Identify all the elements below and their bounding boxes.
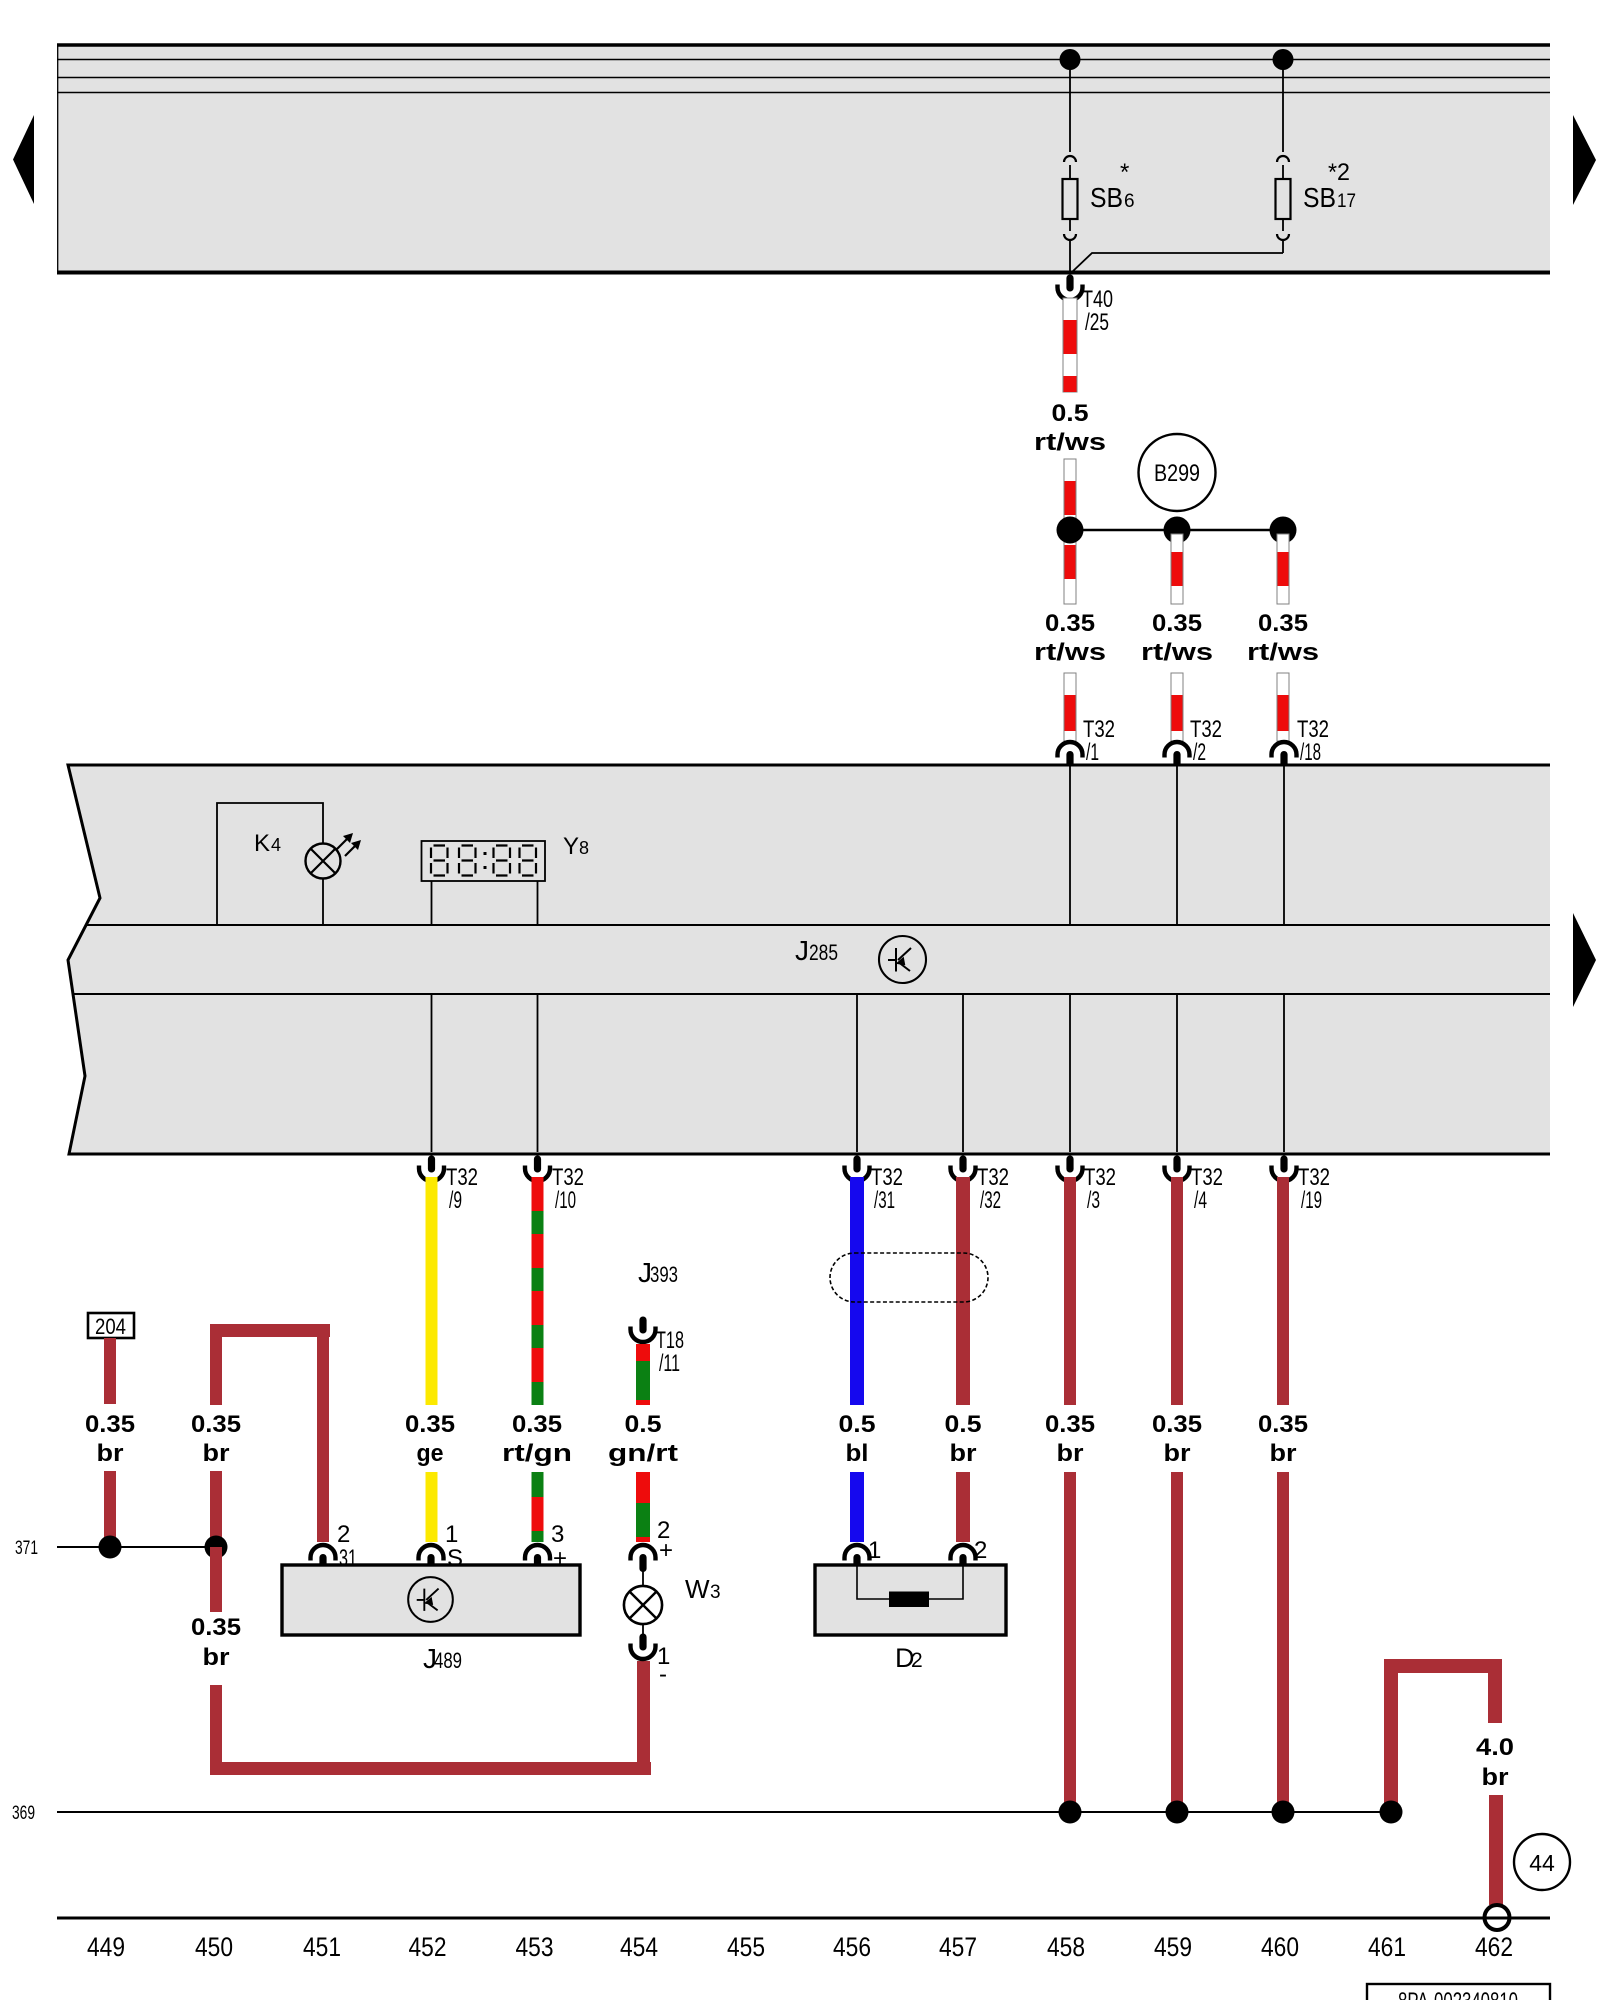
svg-text:/9: /9 — [449, 1187, 462, 1214]
svg-text:0.35: 0.35 — [1045, 610, 1095, 637]
svg-text:459: 459 — [1154, 1932, 1192, 1962]
svg-text:SB: SB — [1303, 182, 1336, 213]
wire 0.35 rt/ws (column 458 upper) — [1064, 459, 1076, 604]
wire 0.35 br col 458 long — [1064, 1472, 1076, 1812]
wire 0.35 ge upper (col 452) — [426, 1177, 438, 1405]
svg-text:369: 369 — [12, 1803, 35, 1824]
bottom frame line — [57, 1917, 1550, 1920]
svg-text:285: 285 — [809, 940, 838, 965]
dimmer control unit J489 box — [282, 1565, 580, 1674]
clock display Y8 — [422, 833, 590, 925]
svg-text:br: br — [950, 1440, 977, 1467]
wire 0.35 ge lower — [426, 1472, 438, 1542]
svg-text:371: 371 — [15, 1538, 38, 1559]
cluster internal wire to T32/3 — [1069, 994, 1071, 1152]
cluster internal wire to T32/9 — [431, 994, 433, 1152]
svg-text:44: 44 — [1529, 1850, 1555, 1876]
connector T32/19 — [1272, 1156, 1331, 1215]
labels 0.35 br (col 449) — [85, 1411, 135, 1467]
label J393 — [638, 1257, 678, 1288]
resistor unit D2 box — [815, 1565, 1006, 1673]
svg-text:2: 2 — [337, 1521, 350, 1548]
splice junction line — [1070, 529, 1283, 531]
wire 0.35 rt/gn upper (col 453) — [532, 1177, 544, 1405]
label 0.5 rt/ws — [1034, 400, 1106, 456]
svg-text:br: br — [1057, 1440, 1084, 1467]
wire 4.0 br to ground point — [1489, 1795, 1503, 1905]
svg-text:0.5: 0.5 — [625, 1411, 662, 1438]
labels 0.5 br (col 457) — [945, 1411, 982, 1467]
bus rail line — [57, 77, 1550, 79]
svg-text:gn/rt: gn/rt — [608, 1440, 678, 1467]
wire 0.35 br col 449 lower — [104, 1471, 116, 1547]
cluster internal wire to T32/31 — [856, 994, 858, 1152]
svg-text:2: 2 — [911, 1649, 923, 1672]
cluster internal wire to T32/10 — [537, 994, 539, 1152]
svg-text:454: 454 — [620, 1932, 658, 1962]
top power-rail box (gray band) — [57, 45, 1550, 273]
svg-text:1: 1 — [868, 1537, 881, 1564]
svg-text:460: 460 — [1261, 1932, 1299, 1962]
svg-text:/31: /31 — [874, 1187, 895, 1214]
wire 0.35 br col 450 top loop — [210, 1324, 330, 1542]
wire 0.5 br lower — [956, 1472, 970, 1542]
wire 0.5 rt/ws segment from T40/25 — [1063, 298, 1077, 392]
svg-text:br: br — [1270, 1440, 1297, 1467]
connector T32/4 — [1165, 1156, 1224, 1215]
svg-text:/3: /3 — [1087, 1187, 1100, 1214]
svg-text:0.5: 0.5 — [1052, 400, 1089, 427]
wire 0.5 bl upper (col 456) — [850, 1177, 864, 1405]
svg-text:204: 204 — [95, 1314, 126, 1339]
svg-text:0.5: 0.5 — [839, 1411, 876, 1438]
svg-text:bl: bl — [846, 1440, 869, 1467]
wire from rail to fuse SB6 — [1069, 60, 1071, 153]
svg-text:*2: *2 — [1328, 159, 1350, 186]
right page arrow (top) — [1573, 115, 1596, 205]
svg-text:rt/ws: rt/ws — [1034, 639, 1106, 666]
part number box — [1367, 1984, 1550, 2000]
svg-text:0.35: 0.35 — [1258, 1411, 1308, 1438]
svg-text:B299: B299 — [1154, 460, 1200, 487]
wire 0.35 rt/ws stub col 460 — [1277, 534, 1289, 604]
svg-text:rt/ws: rt/ws — [1141, 639, 1213, 666]
wire brown right leg up to W3 — [637, 1661, 650, 1768]
connector T32/2 — [1165, 716, 1223, 769]
wire 0.5 gn/rt upper (col 454) — [636, 1344, 650, 1405]
bus rail line 30 — [57, 59, 1550, 61]
splice dot 459 on 369 — [1166, 1801, 1189, 1824]
labels 4.0 br — [1476, 1734, 1514, 1791]
connector J489 pin 1/S — [419, 1521, 464, 1572]
labels 0.35 rt/ws x3 — [1034, 610, 1319, 666]
lamp W3 — [624, 1569, 721, 1636]
connector T32/3 — [1058, 1156, 1117, 1215]
right page arrow (middle) — [1573, 913, 1596, 1007]
svg-text:458: 458 — [1047, 1932, 1085, 1962]
svg-text:/1: /1 — [1086, 739, 1099, 766]
wire rt/ws lower col 459 — [1171, 673, 1183, 741]
svg-text:4: 4 — [271, 835, 281, 855]
svg-text:/2: /2 — [1193, 739, 1206, 766]
indicator lamp K4 symbol — [306, 833, 362, 879]
svg-text:br: br — [203, 1440, 230, 1467]
svg-text:6: 6 — [1124, 191, 1135, 212]
wire 0.35 br col 449 upper — [104, 1338, 116, 1404]
K4 lamp circuit inside cluster — [217, 803, 323, 925]
left page arrow — [13, 115, 34, 204]
connector J489 pin 2/31 — [311, 1521, 358, 1572]
B299 node circle label — [1139, 434, 1216, 511]
svg-text:+: + — [659, 1537, 673, 1564]
splice dot col 450 on 371 — [205, 1536, 228, 1559]
svg-text:8PA-002340810: 8PA-002340810 — [1398, 1988, 1518, 2000]
svg-text:J: J — [795, 935, 809, 966]
labels 0.35 br (col 459) — [1152, 1411, 1202, 1467]
svg-text:0.35: 0.35 — [1152, 610, 1202, 637]
wire 0.35 br col 450 bottom leg — [210, 1685, 222, 1775]
svg-text:/18: /18 — [1300, 739, 1321, 766]
splice dot 458 on 369 — [1059, 1801, 1082, 1824]
ground ring terminal — [1485, 1905, 1510, 1930]
node on rail for SB17 — [1273, 49, 1294, 70]
bus rail line — [57, 92, 1550, 94]
connector T40/25 — [1058, 275, 1114, 337]
cluster internal wire to T32/4 — [1176, 994, 1178, 1152]
wire 0.35 br upper (col 458) — [1064, 1177, 1076, 1405]
wire 0.35 br upper (col 459) — [1171, 1177, 1183, 1405]
wire 0.5 bl lower — [850, 1472, 864, 1542]
wire 0.35 rt/gn lower — [532, 1472, 544, 1542]
svg-text:/11: /11 — [659, 1350, 680, 1377]
wire 0.35 rt/ws stub col 459 — [1171, 534, 1183, 604]
wire 0.5 gn/rt lower — [636, 1472, 650, 1542]
labels 0.35 br (col 458) — [1045, 1411, 1095, 1467]
svg-text:0.35: 0.35 — [405, 1411, 455, 1438]
wire 4.0 br loop top — [1384, 1659, 1502, 1812]
svg-text:rt/gn: rt/gn — [502, 1440, 572, 1467]
svg-text:rt/ws: rt/ws — [1034, 429, 1106, 456]
wire 0.35 br col 450 below 371 — [210, 1547, 222, 1612]
svg-text:0.5: 0.5 — [945, 1411, 982, 1438]
svg-text:br: br — [203, 1644, 230, 1671]
connector T32/32 — [951, 1156, 1010, 1215]
svg-text:0.35: 0.35 — [512, 1411, 562, 1438]
connector T32/18 — [1272, 716, 1330, 769]
connector T32/9 — [419, 1156, 478, 1215]
wire 0.35 br upper (col 460) — [1277, 1177, 1289, 1405]
svg-text:461: 461 — [1368, 1932, 1406, 1962]
control unit label J285 — [795, 935, 838, 966]
labels 0.35 br (col 450) — [191, 1411, 241, 1467]
svg-text:W: W — [685, 1574, 710, 1604]
svg-text:/19: /19 — [1301, 1187, 1322, 1214]
svg-text:4.0: 4.0 — [1476, 1734, 1514, 1761]
svg-text:0.35: 0.35 — [191, 1411, 241, 1438]
splice dot 458 — [1057, 517, 1084, 544]
svg-text:17: 17 — [1337, 191, 1356, 212]
cluster internal wire to T32/2 — [1176, 766, 1178, 925]
J285 inner strip top line — [87, 924, 1550, 926]
labels 0.35 rt/gn (col 453) — [502, 1411, 572, 1467]
svg-text:/32: /32 — [980, 1187, 1001, 1214]
svg-text:br: br — [1164, 1440, 1191, 1467]
splice dot 460 — [1270, 517, 1297, 544]
svg-text:0.35: 0.35 — [85, 1411, 135, 1438]
svg-text:453: 453 — [516, 1932, 554, 1962]
svg-text:457: 457 — [939, 1932, 977, 1962]
svg-text:1: 1 — [445, 1521, 458, 1548]
svg-text:450: 450 — [195, 1932, 233, 1962]
gauge symbol in J489 — [408, 1577, 453, 1622]
wire 0.35 br col 459 long — [1171, 1472, 1183, 1812]
svg-text:br: br — [1482, 1764, 1509, 1791]
svg-text:/10: /10 — [555, 1187, 576, 1214]
connector T32/1 — [1058, 716, 1116, 769]
svg-text:449: 449 — [87, 1932, 125, 1962]
cluster internal wire to T32/1 — [1069, 766, 1071, 925]
connector T32/31 — [845, 1156, 904, 1215]
connector W3 pin 2/+ — [631, 1517, 674, 1572]
splice dot 460 on 369 — [1272, 1801, 1295, 1824]
svg-text:br: br — [97, 1440, 124, 1467]
svg-text:Y: Y — [563, 833, 579, 860]
splice dot 461 on 369 — [1380, 1801, 1403, 1824]
wire jog from SB17 to SB6 column — [1072, 253, 1283, 272]
wire from rail to fuse SB17 — [1282, 60, 1284, 153]
204 terminal box — [88, 1313, 134, 1339]
svg-text:3: 3 — [551, 1521, 564, 1548]
svg-text:K: K — [254, 830, 270, 857]
svg-text:SB: SB — [1090, 182, 1123, 213]
labels 0.5 gn/rt (col 454) — [608, 1411, 678, 1467]
cluster internal wire to T32/19 — [1283, 994, 1285, 1152]
splice dot col 449 on 371 — [99, 1536, 122, 1559]
svg-text:393: 393 — [650, 1262, 678, 1287]
svg-text:451: 451 — [303, 1932, 341, 1962]
svg-text:0.35: 0.35 — [191, 1614, 241, 1641]
connector W3 pin 1/- — [631, 1634, 671, 1689]
fuse SB17 — [1276, 156, 1357, 253]
ground run wire (brown horizontal) — [210, 1762, 651, 1775]
J285 inner strip bottom line — [73, 993, 1550, 995]
wire rt/ws lower col 458 — [1064, 673, 1076, 741]
wire 0.35 br col 460 long — [1277, 1472, 1289, 1812]
svg-text:/25: /25 — [1085, 309, 1109, 336]
svg-text:-: - — [659, 1661, 667, 1688]
line 371 — [15, 1538, 217, 1559]
svg-text:ge: ge — [417, 1440, 444, 1467]
labels 0.35 br (col 450 lower) — [191, 1614, 241, 1671]
svg-text:/4: /4 — [1194, 1187, 1207, 1214]
gauge symbol in J285 strip — [879, 936, 926, 983]
svg-text:0.35: 0.35 — [1258, 610, 1308, 637]
fuse SB6 — [1063, 156, 1135, 272]
wire rt/ws lower col 460 — [1277, 673, 1289, 741]
svg-text:455: 455 — [727, 1932, 765, 1962]
svg-text:456: 456 — [833, 1932, 871, 1962]
instrument cluster box J285 (gray band with torn left edge) — [68, 765, 1550, 1154]
svg-text:0.35: 0.35 — [1045, 1411, 1095, 1438]
labels 0.35 br (col 460) — [1258, 1411, 1308, 1467]
connector T32/10 — [525, 1156, 584, 1215]
labels 0.5 bl (col 456) — [839, 1411, 876, 1467]
twisted pair marker (dashed capsule) — [830, 1253, 988, 1302]
svg-text:*: * — [1120, 159, 1129, 186]
svg-text:452: 452 — [409, 1932, 447, 1962]
wire 0.35 br col 450 mid — [210, 1471, 222, 1612]
connector D2 pin 2 — [951, 1537, 988, 1572]
cluster internal wire to T32/32 — [962, 994, 964, 1152]
connector T18/11 — [631, 1317, 685, 1378]
svg-text:2: 2 — [974, 1537, 987, 1564]
splice dot 459 — [1164, 517, 1191, 544]
node on rail for SB6 — [1060, 49, 1081, 70]
labels 0.35 ge (col 452) — [405, 1411, 455, 1467]
connector J489 pin 3/+ — [525, 1521, 567, 1572]
cluster internal wire to T32/18 — [1283, 766, 1285, 925]
connector D2 pin 1 — [845, 1537, 882, 1572]
svg-text:rt/ws: rt/ws — [1247, 639, 1319, 666]
ground reference circle 44 — [1514, 1834, 1570, 1890]
svg-text:462: 462 — [1475, 1932, 1513, 1962]
svg-text:8: 8 — [579, 838, 589, 858]
svg-text:0.35: 0.35 — [1152, 1411, 1202, 1438]
svg-text:3: 3 — [710, 1582, 721, 1603]
svg-text:489: 489 — [434, 1648, 462, 1673]
wire 0.5 br upper (col 457) — [956, 1177, 970, 1405]
line 369 — [12, 1803, 1391, 1824]
